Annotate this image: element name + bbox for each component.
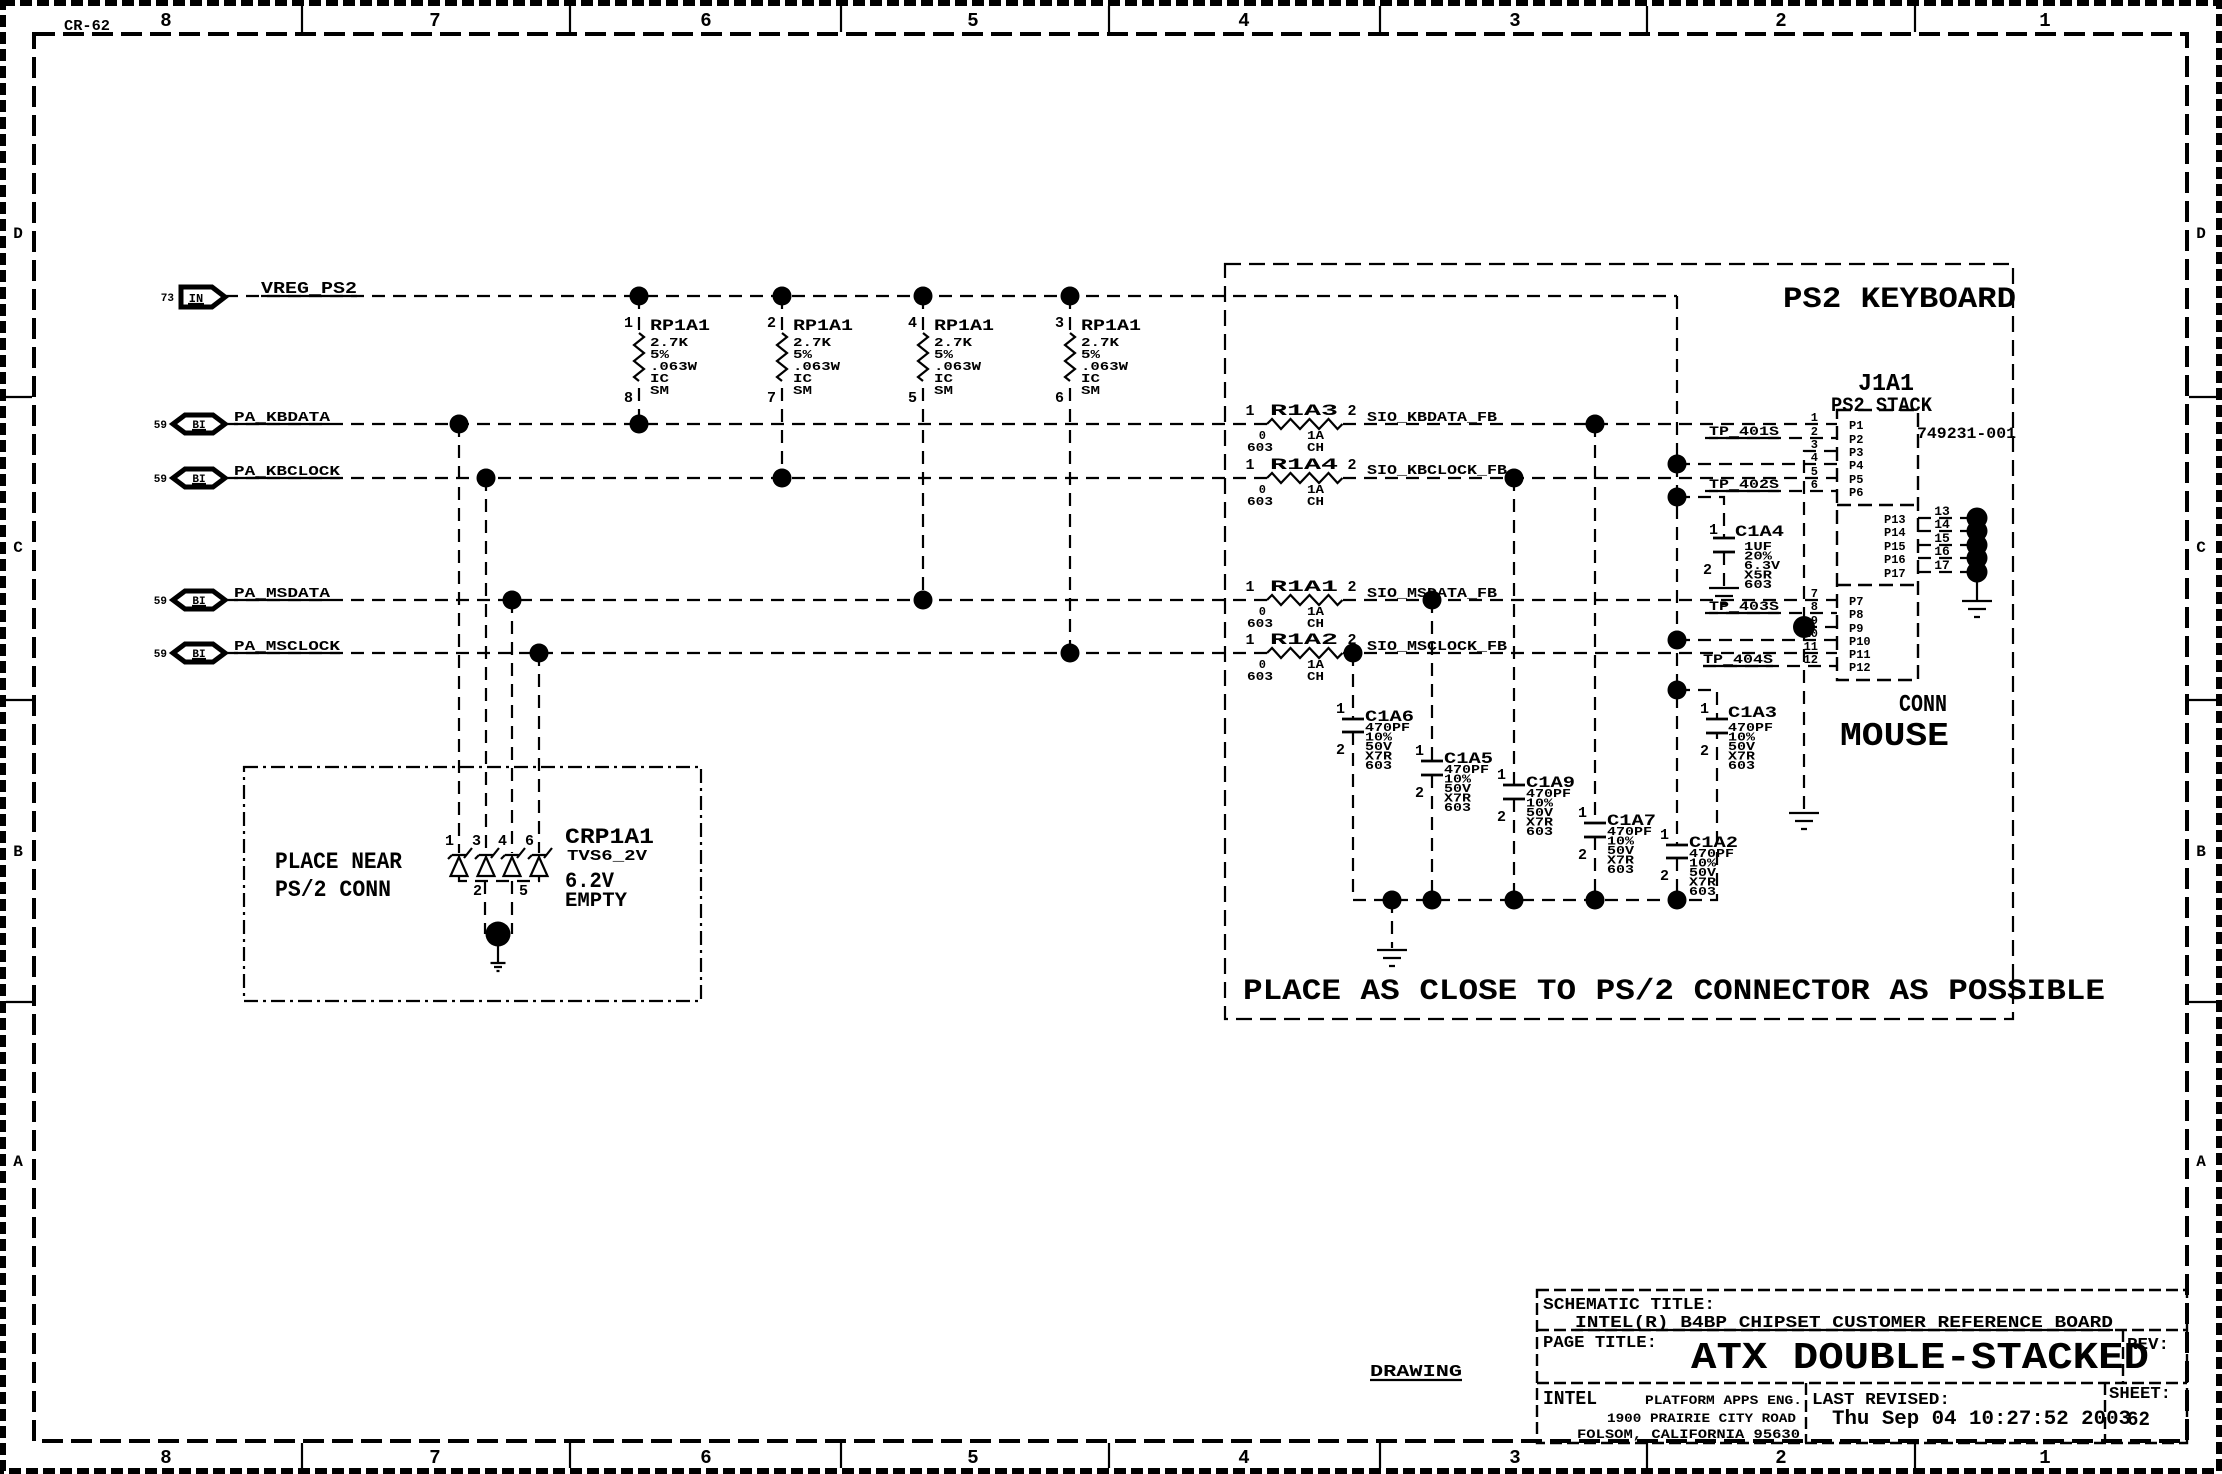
svg-text:3: 3 [1055, 315, 1064, 332]
wire shield pin 15 [1918, 544, 1977, 546]
svg-text:603: 603 [1607, 863, 1634, 877]
svg-text:MOUSE: MOUSE [1840, 718, 1949, 755]
svg-text:1: 1 [1245, 579, 1254, 596]
junction ground bus / gnd stub [1383, 891, 1402, 910]
svg-text:7: 7 [767, 390, 776, 407]
wire connector pin 3 / pin 9 ground rail [1804, 451, 1837, 810]
wire PA_KBDATA down to CRP1A1 pin 1 [458, 424, 460, 853]
svg-text:R1A1: R1A1 [1270, 578, 1338, 596]
wire shield pin 17 [1918, 571, 1977, 573]
wire SIO_MSCLOCK_FB to connector pin 11 [1343, 652, 1837, 654]
svg-text:7: 7 [1811, 587, 1818, 601]
junction ground bus / C1A5 [1423, 891, 1442, 910]
svg-text:PLACE NEAR: PLACE NEAR [275, 849, 402, 875]
junction SIO_MSDATA_FB / C1A5 [1423, 591, 1442, 610]
svg-text:1: 1 [2039, 10, 2050, 32]
svg-text:1: 1 [1245, 632, 1254, 649]
junction VREG_PS2 / RP1A1 pin 3 [1061, 287, 1080, 306]
capacitor C1A7 470PF [1578, 805, 1656, 877]
junction shield pin 13 [1967, 508, 1988, 529]
junction VREG / pin 4 [1668, 455, 1687, 474]
svg-text:R1A3: R1A3 [1270, 402, 1338, 420]
wire shield pin 13 [1918, 517, 1977, 519]
svg-text:INTEL: INTEL [1543, 1388, 1597, 1410]
wire C1A4 to ground [1723, 552, 1725, 587]
svg-text:TP_404S: TP_404S [1703, 652, 1773, 667]
svg-text:R1A2: R1A2 [1270, 631, 1338, 649]
svg-text:RP1A1: RP1A1 [650, 317, 710, 335]
capacitor C1A9 470PF [1497, 767, 1575, 839]
svg-text:603: 603 [1689, 885, 1716, 899]
resistor RP1A1 element pins 1/8 [624, 296, 710, 424]
diode CRP1A1 element pin 1 [445, 833, 472, 876]
svg-text:CONN: CONN [1899, 692, 1947, 719]
svg-text:6: 6 [525, 833, 534, 850]
wire CRP1A1 to ground [497, 934, 499, 962]
svg-text:1: 1 [1811, 411, 1818, 425]
svg-text:RP1A1: RP1A1 [1081, 317, 1141, 335]
svg-text:P8: P8 [1849, 608, 1863, 622]
junction VREG_PS2 / RP1A1 pin 1 [630, 287, 649, 306]
svg-text:8: 8 [160, 1447, 171, 1469]
wire VREG_PS2 vertical distribution [1676, 296, 1678, 845]
resistor R1A1 0 ohm series [1245, 578, 1356, 631]
wire ground bus stub down [1391, 900, 1393, 948]
svg-text:5: 5 [967, 10, 978, 32]
ground shield [1962, 601, 1992, 617]
svg-text:1: 1 [1660, 827, 1669, 844]
svg-text:CH: CH [1307, 670, 1324, 684]
junction ground bus / C1A2 [1668, 891, 1687, 910]
svg-text:A: A [2196, 1153, 2206, 1171]
svg-text:PLACE AS CLOSE TO PS/2 CONNECT: PLACE AS CLOSE TO PS/2 CONNECTOR AS POSS… [1243, 975, 2105, 1009]
svg-text:CH: CH [1307, 617, 1324, 631]
wire PA_KBCLOCK down to CRP1A1 pin 3 [485, 478, 487, 853]
junction VREG / C1A4 [1668, 488, 1687, 507]
junction shield pin 17 [1967, 562, 1988, 583]
svg-text:P5: P5 [1849, 473, 1863, 487]
junction ground bus / C1A7 [1586, 891, 1605, 910]
ground of filter cap bus [1377, 950, 1407, 966]
junction SIO_KBCLOCK_FB / C1A9 [1505, 469, 1524, 488]
svg-text:J1A1: J1A1 [1858, 371, 1914, 398]
svg-text:B: B [2196, 843, 2206, 861]
wire VREG to connector pin 4 [1677, 463, 1837, 465]
column labels bottom [160, 1447, 2050, 1469]
resistor RP1A1 element pins 2/7 [767, 296, 853, 478]
svg-text:2: 2 [1775, 10, 1786, 32]
wire PA_MSDATA down to CRP1A1 pin 4 [511, 600, 513, 853]
capacitor C1A6 470PF [1336, 701, 1414, 773]
svg-text:5: 5 [519, 883, 528, 900]
svg-text:1: 1 [1497, 767, 1506, 784]
svg-text:62: 62 [2127, 1409, 2150, 1432]
svg-text:6: 6 [1055, 390, 1064, 407]
svg-text:SHEET:: SHEET: [2109, 1385, 2171, 1404]
wire C1A7 to ground bus [1594, 837, 1596, 900]
svg-text:1: 1 [1245, 457, 1254, 474]
resistor R1A3 0 ohm series [1245, 402, 1356, 455]
svg-text:603: 603 [1365, 759, 1392, 773]
junction SIO_MSCLOCK_FB / C1A6 [1344, 644, 1363, 663]
svg-text:ATX DOUBLE-STACKED: ATX DOUBLE-STACKED [1691, 1337, 2149, 1380]
junction shield pin 14 [1967, 521, 1988, 542]
svg-text:16: 16 [1934, 544, 1950, 559]
svg-text:P11: P11 [1849, 648, 1871, 662]
svg-text:FOLSOM, CALIFORNIA 95630: FOLSOM, CALIFORNIA 95630 [1577, 1427, 1800, 1442]
svg-text:17: 17 [1934, 558, 1950, 573]
svg-text:PLATFORM APPS ENG.: PLATFORM APPS ENG. [1645, 1393, 1802, 1408]
port BI PA_KBDATA, pin 59 [154, 415, 225, 433]
svg-text:PAGE TITLE:: PAGE TITLE: [1543, 1334, 1657, 1353]
svg-text:603: 603 [1526, 825, 1553, 839]
svg-text:603: 603 [1247, 441, 1273, 455]
wire C1A6 to ground bus elbow [1353, 732, 1717, 900]
svg-text:6: 6 [700, 10, 711, 32]
svg-text:2: 2 [1703, 562, 1712, 579]
wire SIO_KBCLOCK_FB down to C1A9 [1513, 478, 1515, 785]
svg-text:59: 59 [154, 649, 167, 661]
svg-text:CRP1A1: CRP1A1 [565, 825, 654, 850]
svg-text:2: 2 [1347, 579, 1356, 596]
svg-text:4: 4 [1238, 10, 1249, 32]
junction PA_MSCLOCK / diode branch [530, 644, 549, 663]
wire SIO_KBDATA_FB to connector pin 1 [1343, 423, 1837, 425]
svg-text:603: 603 [1247, 495, 1273, 509]
wire PA_MSCLOCK down to CRP1A1 pin 6 [538, 653, 540, 853]
svg-text:P12: P12 [1849, 661, 1871, 675]
svg-text:4: 4 [498, 833, 507, 850]
svg-text:1: 1 [1415, 743, 1424, 760]
svg-text:D: D [13, 225, 23, 243]
svg-text:3: 3 [1509, 10, 1520, 32]
wire PA_MSCLOCK horizontal to R1A2 [225, 652, 1267, 654]
resistor RP1A1 element pins 4/5 [908, 296, 994, 600]
region box PS2 keyboard/mouse [1225, 264, 2013, 1019]
junction PA_KBCLOCK / RP1A1 pin 7 [773, 469, 792, 488]
wire SIO_MSCLOCK_FB down to C1A6 [1352, 653, 1354, 719]
svg-text:603: 603 [1247, 670, 1273, 684]
junction VREG / C1A3 [1668, 681, 1687, 700]
junction CRP1A1 ground node [486, 922, 511, 947]
svg-text:1: 1 [1578, 805, 1587, 822]
svg-text:SM: SM [1081, 384, 1100, 398]
junction shield pin 15 [1967, 535, 1988, 556]
svg-text:1: 1 [1336, 701, 1345, 718]
svg-text:2: 2 [1700, 743, 1709, 760]
svg-text:PS2 KEYBOARD: PS2 KEYBOARD [1783, 283, 2016, 317]
svg-text:Thu Sep 04 10:27:52 2003: Thu Sep 04 10:27:52 2003 [1832, 1408, 2131, 1431]
wire testpoint TP_402S to pin 6 [1705, 490, 1837, 492]
diode CRP1A1 element pin 4 [498, 833, 525, 876]
junction ground bus / C1A9 [1505, 891, 1524, 910]
svg-text:P4: P4 [1849, 459, 1863, 473]
wire VREG elbow to C1A3 [1677, 690, 1717, 719]
wire shield pin 16 [1918, 557, 1977, 559]
svg-text:2: 2 [1347, 403, 1356, 420]
wire SIO_KBDATA_FB down to C1A7 [1594, 424, 1596, 823]
svg-text:P6: P6 [1849, 486, 1863, 500]
svg-text:59: 59 [154, 474, 167, 486]
svg-text:D: D [2196, 225, 2206, 243]
svg-text:CH: CH [1307, 495, 1324, 509]
svg-text:RP1A1: RP1A1 [934, 317, 994, 335]
svg-text:2: 2 [1336, 742, 1345, 759]
svg-text:P14: P14 [1884, 526, 1906, 540]
svg-text:SM: SM [650, 384, 669, 398]
svg-text:3: 3 [472, 833, 481, 850]
junction VREG / pin 10 [1668, 631, 1687, 650]
junction PA_KBDATA / RP1A1 pin 8 [630, 415, 649, 434]
junction VREG_PS2 / RP1A1 pin 2 [773, 287, 792, 306]
svg-text:B: B [13, 843, 23, 861]
svg-text:P10: P10 [1849, 635, 1871, 649]
svg-text:P13: P13 [1884, 513, 1906, 527]
port BI PA_KBCLOCK, pin 59 [154, 469, 225, 487]
svg-text:C: C [13, 539, 23, 557]
svg-text:TP_402S: TP_402S [1709, 477, 1779, 492]
svg-text:4: 4 [908, 315, 917, 332]
svg-text:CH: CH [1307, 441, 1324, 455]
svg-text:3: 3 [1509, 1447, 1520, 1469]
wire testpoint TP_403S to pin 8 [1705, 612, 1837, 614]
row labels right [2196, 225, 2206, 1171]
ground C1A4 [1709, 588, 1739, 604]
junction PA_MSDATA / RP1A1 pin 5 [914, 591, 933, 610]
svg-text:603: 603 [1247, 617, 1273, 631]
svg-text:4: 4 [1238, 1447, 1249, 1469]
wire shield to ground [1976, 572, 1978, 600]
svg-text:59: 59 [154, 420, 167, 432]
connector J1A1 body [1837, 410, 1918, 680]
wire VREG elbow to C1A4 [1677, 497, 1724, 538]
svg-text:C1A3: C1A3 [1728, 704, 1777, 722]
wire PA_KBDATA horizontal to R1A3 [225, 423, 1267, 425]
wire SIO_KBCLOCK_FB to connector pin 5 [1343, 477, 1837, 479]
junction SIO_KBDATA_FB / C1A7 [1586, 415, 1605, 434]
wire VREG to connector pin 10 [1677, 639, 1837, 641]
svg-text:A: A [13, 1153, 23, 1171]
ground CRP1A1 small [491, 963, 506, 971]
resistor R1A2 0 ohm series [1245, 631, 1356, 684]
svg-text:P7: P7 [1849, 595, 1863, 609]
svg-text:7: 7 [429, 10, 440, 32]
svg-text:SCHEMATIC TITLE:: SCHEMATIC TITLE: [1543, 1296, 1715, 1315]
svg-text:14: 14 [1934, 517, 1950, 532]
svg-text:2: 2 [1415, 785, 1424, 802]
svg-text:TVS6_2V: TVS6_2V [567, 848, 647, 865]
svg-text:SM: SM [793, 384, 812, 398]
wire PA_KBCLOCK horizontal to R1A4 [225, 477, 1267, 479]
svg-text:2: 2 [1660, 868, 1669, 885]
svg-text:5: 5 [908, 390, 917, 407]
svg-text:P3: P3 [1849, 446, 1863, 460]
svg-text:2: 2 [1578, 847, 1587, 864]
svg-text:73: 73 [161, 293, 175, 305]
svg-text:P1: P1 [1849, 419, 1863, 433]
svg-text:11: 11 [1804, 640, 1818, 654]
capacitor C1A2 470PF [1660, 827, 1738, 899]
svg-text:1: 1 [445, 833, 454, 850]
svg-text:1: 1 [2039, 1447, 2050, 1469]
wire SIO_MSDATA_FB to connector pin 7 [1343, 599, 1837, 601]
svg-text:P17: P17 [1884, 567, 1906, 581]
svg-text:1: 1 [1700, 701, 1709, 718]
svg-text:SIO_KBCLOCK_FB: SIO_KBCLOCK_FB [1367, 463, 1508, 479]
svg-text:1: 1 [624, 315, 633, 332]
svg-text:RP1A1: RP1A1 [793, 317, 853, 335]
svg-text:603: 603 [1728, 759, 1755, 773]
title block frame [1537, 1290, 2187, 1443]
capacitor C1A4 1UF [1703, 522, 1785, 592]
wire C1A2 to ground bus [1676, 858, 1678, 900]
wire PA_MSDATA horizontal to R1A1 [225, 599, 1267, 601]
svg-text:CR-62: CR-62 [64, 18, 110, 35]
svg-text:8: 8 [160, 10, 171, 32]
svg-text:2: 2 [767, 315, 776, 332]
svg-text:C: C [2196, 539, 2206, 557]
svg-text:603: 603 [1744, 578, 1772, 592]
junction PA_MSDATA / diode branch [503, 591, 522, 610]
wire SIO_MSDATA_FB down to C1A5 [1431, 600, 1433, 761]
svg-text:603: 603 [1444, 801, 1471, 815]
svg-text:59: 59 [154, 596, 167, 608]
svg-text:TP_401S: TP_401S [1709, 424, 1779, 439]
row labels left [13, 225, 23, 1171]
svg-text:2: 2 [1347, 457, 1356, 474]
row tick marks right [2189, 397, 2216, 1002]
column labels top [160, 10, 2050, 32]
wire shield pin 14 [1918, 530, 1977, 532]
resistor RP1A1 element pins 3/6 [1055, 296, 1141, 653]
wire VREG_PS2 horizontal [225, 295, 1677, 297]
junction PA_KBDATA / diode branch [450, 415, 469, 434]
wire C1A5 to ground bus [1431, 775, 1433, 900]
port BI PA_MSDATA, pin 59 [154, 591, 225, 609]
svg-text:8: 8 [624, 390, 633, 407]
capacitor C1A5 470PF [1415, 743, 1493, 815]
svg-text:5: 5 [967, 1447, 978, 1469]
wire CRP1A1 anode bus [459, 876, 539, 934]
resistor R1A4 0 ohm series [1245, 456, 1356, 509]
svg-text:2: 2 [1497, 809, 1506, 826]
svg-text:2: 2 [1775, 1447, 1786, 1469]
column tick marks bottom [302, 1443, 1915, 1468]
wire C1A9 to ground bus [1513, 799, 1515, 900]
junction PA_MSCLOCK / RP1A1 pin 6 [1061, 644, 1080, 663]
note box PLACE NEAR PS/2 CONN [244, 767, 701, 1001]
svg-text:749231-001: 749231-001 [1917, 425, 2016, 443]
svg-text:1: 1 [1709, 522, 1718, 539]
row tick marks left [6, 397, 32, 1002]
svg-text:P16: P16 [1884, 553, 1906, 567]
svg-text:TP_403S: TP_403S [1709, 599, 1779, 614]
junction PA_KBCLOCK / diode branch [477, 469, 496, 488]
port BI PA_MSCLOCK, pin 59 [154, 644, 225, 662]
capacitor C1A3 470PF [1700, 701, 1777, 773]
svg-text:1900 PRAIRIE CITY ROAD: 1900 PRAIRIE CITY ROAD [1607, 1411, 1796, 1426]
svg-text:1: 1 [1245, 403, 1254, 420]
svg-text:2: 2 [473, 883, 482, 900]
svg-text:5: 5 [1811, 465, 1818, 479]
junction VREG_PS2 / RP1A1 pin 4 [914, 287, 933, 306]
svg-text:6: 6 [700, 1447, 711, 1469]
svg-text:REV:: REV: [2127, 1336, 2169, 1355]
column tick marks top [302, 6, 1915, 32]
svg-text:C1A4: C1A4 [1735, 523, 1785, 541]
svg-text:P2: P2 [1849, 433, 1863, 447]
svg-text:R1A4: R1A4 [1270, 456, 1339, 474]
svg-text:SM: SM [934, 384, 953, 398]
svg-text:7: 7 [429, 1447, 440, 1469]
diode CRP1A1 element pin 6 [525, 833, 552, 876]
wire testpoint TP_401S to pin 2 [1705, 437, 1837, 439]
ground connector rail [1789, 813, 1819, 829]
svg-text:P9: P9 [1849, 622, 1863, 636]
diode CRP1A1 element pin 3 [472, 833, 499, 876]
svg-text:4: 4 [1811, 451, 1818, 465]
port IN (VREG_PS2), pin 73 [161, 287, 225, 307]
svg-text:P15: P15 [1884, 540, 1906, 554]
svg-text:EMPTY: EMPTY [565, 890, 627, 913]
wire testpoint TP_404S to pin 12 [1703, 665, 1837, 667]
junction ground rail / pin 9 [1793, 616, 1815, 638]
svg-text:PS/2 CONN: PS/2 CONN [275, 877, 391, 903]
junction shield pin 16 [1967, 548, 1988, 569]
